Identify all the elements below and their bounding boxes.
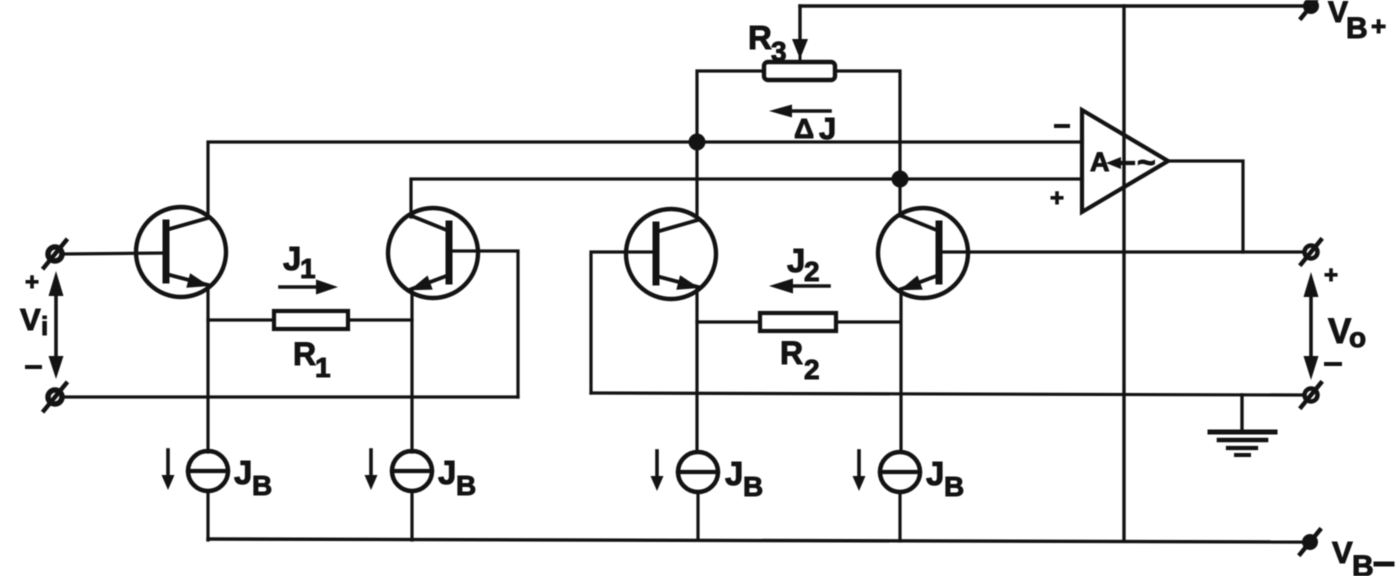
current source JB1 [188,451,228,491]
label Vo minus sign [1326,362,1340,366]
transistor Q4 [878,208,968,298]
svg-text:~: ~ [1137,144,1156,180]
arrow JB4 direction [853,451,866,491]
svg-text:B: B [1346,12,1368,45]
svg-text:R: R [293,336,316,372]
svg-text:A: A [1090,147,1110,177]
arrow Vi polarity (double-headed) [49,271,64,379]
wire Q4 collector from node B [898,179,901,216]
resistor R2 [760,313,836,331]
op-amp internal arrow and tilde [1106,144,1156,180]
junction node B (rail 2 / R3 right / Q4 collector) [892,171,909,188]
label Vi plus sign [25,269,39,296]
svg-text:J: J [234,454,252,491]
svg-text:B: B [1352,550,1374,576]
label J1 [283,240,316,284]
svg-text:R: R [780,335,803,371]
ground [1210,395,1275,455]
label ΔJ [794,111,836,146]
svg-text:J: J [438,454,456,491]
label JB4 [926,455,964,502]
svg-text:+: + [1050,185,1064,212]
transistor Q2 [388,208,478,298]
wire rail 2: Q2 collector to op-amp non-inverting input [411,179,1082,217]
wire JB1 to VB- rail [206,491,209,540]
transistor Q1 [136,207,226,297]
svg-text:B: B [456,470,476,501]
label Vi [20,302,48,341]
wire Q3 collector from node A (crossing rail 2) [695,142,698,218]
wire VB+ rail (top) [800,4,1304,7]
svg-text:o: o [1349,322,1366,353]
current arrow ΔJ [769,105,830,118]
current arrow J2 [769,279,829,294]
junction node A (rail 1 / R3 left / Q3 collector) [689,134,706,151]
svg-text:1: 1 [315,352,331,383]
label VB+ [1328,0,1386,45]
wire VB- rail (bottom) [208,539,1304,542]
label J2 [787,242,820,287]
wire Q4 emitter down to JB4 [899,289,902,452]
svg-text:J: J [787,242,805,279]
current arrow J1 [280,280,338,295]
svg-text:V: V [1332,535,1353,570]
arrow JB2 direction [365,450,378,490]
svg-text:+: + [1371,11,1386,41]
terminal VB+ [1301,0,1321,18]
current source JB3 [678,452,718,492]
wire R3 right to node B [835,71,900,179]
current source JB2 [392,451,432,491]
label op-amp gain A [1090,147,1110,177]
label JB3 [725,455,763,502]
wire Q1 emitter down to JB1 [206,287,209,452]
label JB2 [438,454,476,501]
wire Vi+ to Q1 base [62,253,167,254]
wire Q2 base to Vi- rail [449,251,518,397]
label JB1 [234,454,272,501]
svg-text:3: 3 [771,36,787,67]
current source JB4 [880,452,920,492]
wire R3 left to node A [697,71,764,142]
wire R3 wiper from VB+ rail [792,6,808,62]
svg-text:B: B [743,471,763,502]
svg-text:B: B [252,470,272,501]
wire Q3 emitter to R2 [697,320,760,323]
svg-text:J: J [926,455,944,492]
arrow JB1 direction [162,450,175,490]
resistor R1 [274,311,348,329]
svg-text:R: R [748,19,772,56]
svg-text:i: i [41,311,48,341]
label VB- [1332,535,1392,576]
wire Vo- rail [591,393,1304,395]
wire Q2 emitter down to JB2 [410,289,413,452]
svg-text:Δ: Δ [794,113,814,144]
wire R1 to Q2 emitter [348,318,412,321]
terminal Vo- [1301,383,1321,407]
svg-text:V: V [20,302,41,337]
potentiometer R3 [764,62,835,80]
svg-text:2: 2 [804,256,820,287]
wire Q4 base to Vo+ terminal [939,250,1304,253]
svg-text:+: + [25,269,39,296]
label op-amp non-inverting input [1050,185,1064,212]
wire R2 to Q4 emitter [836,320,900,323]
svg-text:1: 1 [300,253,316,284]
terminal VB- [1300,530,1320,554]
wire Q3 emitter down to JB3 [695,290,698,452]
label R1 [293,336,331,383]
op-amp A [1082,110,1168,212]
wire op-amp output to Vo+ line [1168,161,1243,252]
wire Q1 emitter to R1 [208,318,274,321]
wire Vi- rail [62,395,518,398]
svg-text:J: J [283,240,301,277]
terminal Vi- [44,384,66,411]
wire VB+ supply line through op-amp to VB- rail [1122,6,1125,541]
svg-text:B: B [944,471,964,502]
svg-text:V: V [1328,0,1348,29]
label R2 [780,335,820,385]
wire JB4 to VB- rail [898,492,901,541]
wire rail 1: Q1 collector to op-amp inverting input [208,142,1082,216]
label R3 [748,19,787,67]
label op-amp inverting input [1056,124,1068,128]
svg-text:+: + [1324,262,1338,289]
svg-text:2: 2 [804,354,820,385]
terminal Vi+ [44,241,66,268]
svg-text:J: J [725,455,743,492]
wire JB3 to VB- rail [696,492,699,540]
transistor Q3 [626,209,716,299]
label Vo plus sign [1324,262,1338,289]
label Vi minus sign [27,365,40,369]
wire Q3 base to Vo- rail [591,252,657,393]
label Vo [1328,312,1366,353]
wire JB2 to VB- rail [410,491,413,540]
terminal Vo+ [1301,240,1321,264]
arrow JB3 direction [651,451,664,491]
arrow Vo polarity (double-headed) [1304,272,1319,380]
